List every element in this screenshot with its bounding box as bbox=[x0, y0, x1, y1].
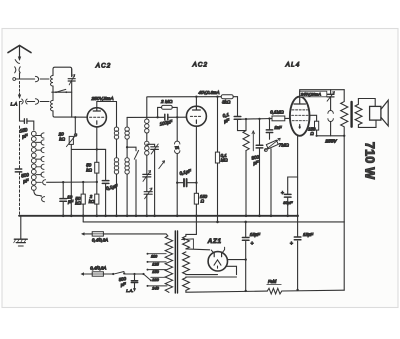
grid capacitor 100pF bbox=[165, 114, 168, 120]
tube V3 AL4 bbox=[290, 97, 310, 136]
AZ1 anodes bbox=[214, 253, 221, 257]
filter capacitor 15uF first bbox=[245, 222, 247, 237]
wire resistor to AVC node bbox=[96, 173, 98, 182]
resistor 2M grid leak bbox=[156, 116, 158, 118]
mid wire with switch bbox=[52, 91, 72, 93]
capacitor 0.1uF coupling bbox=[237, 97, 239, 116]
mains switch bbox=[112, 273, 114, 275]
AF grid line bbox=[241, 118, 272, 121]
wire pot bottom bbox=[71, 144, 105, 215]
svg-text:15µF: 15µF bbox=[303, 232, 313, 237]
speaker bbox=[370, 106, 381, 120]
svg-text:kΩ: kΩ bbox=[89, 199, 95, 204]
svg-text:+: + bbox=[290, 241, 293, 247]
secondary HT winding bbox=[183, 236, 190, 249]
capacitor 500pF mains bbox=[133, 273, 135, 275]
svg-text:0,4/0,8A: 0,4/0,8A bbox=[90, 265, 106, 270]
svg-text:110: 110 bbox=[151, 253, 158, 258]
capacitor 150pF bbox=[24, 119, 27, 124]
TA pickup jack bbox=[176, 117, 178, 141]
terminal A bbox=[13, 78, 16, 81]
screen resistor 150 bbox=[310, 115, 317, 136]
dashed gang line with 500pF bbox=[19, 126, 21, 168]
filter capacitor 15uF second bbox=[294, 237, 301, 240]
wire HT to AZ1 anode bbox=[186, 248, 210, 251]
tube V1 AC2 bbox=[87, 108, 106, 127]
wire antenna lead-in bbox=[19, 46, 21, 59]
wire V1 cathode bbox=[96, 127, 98, 162]
coil stack bottom hook bbox=[34, 190, 41, 196]
wire zigzag top riser bbox=[245, 119, 247, 131]
svg-text:1nF: 1nF bbox=[274, 125, 282, 130]
capacitor 0.1uF cathode bypass bbox=[97, 149, 106, 180]
resistor 150 ohm cathode bbox=[194, 193, 198, 204]
coupling fork L2 bbox=[35, 99, 38, 104]
trimmer side branch bbox=[147, 144, 155, 146]
svg-text:30µF: 30µF bbox=[283, 200, 293, 205]
AZ1 filament loop bbox=[227, 266, 237, 274]
svg-text:220: 220 bbox=[151, 277, 159, 282]
voltage selector blade bbox=[142, 273, 144, 275]
wire antenna branch down bbox=[19, 102, 21, 122]
rectifier AZ1 bbox=[208, 252, 227, 271]
bus junction dots bbox=[62, 215, 299, 218]
resistor 0.1M AL4 grid bbox=[272, 116, 285, 121]
secondary 6V winding bbox=[183, 278, 190, 293]
band coil stack bbox=[31, 131, 36, 190]
svg-text:710 W: 710 W bbox=[362, 142, 376, 179]
fuse F2 bbox=[92, 272, 103, 276]
tone jack pair bbox=[328, 111, 333, 114]
coil L2 winding bbox=[51, 92, 54, 111]
svg-text:+: + bbox=[281, 190, 284, 196]
potentiometer 7M bbox=[266, 140, 278, 149]
B+ screen line bbox=[147, 96, 238, 98]
svg-text:240: 240 bbox=[151, 285, 159, 290]
secondary 4V winding bbox=[183, 252, 190, 274]
svg-text:AC2: AC2 bbox=[95, 63, 112, 70]
svg-text:Feld: Feld bbox=[268, 279, 277, 284]
svg-text:kΩ: kΩ bbox=[75, 201, 81, 206]
speaker wires bbox=[358, 99, 376, 128]
RF input coil unit: top wire bbox=[53, 67, 72, 76]
antenna bbox=[8, 45, 31, 52]
output transformer core bbox=[350, 102, 352, 127]
pot wiper line bbox=[252, 131, 254, 151]
trimmer on rail lower bbox=[144, 192, 152, 195]
small trimmer arrow near osc bbox=[159, 161, 165, 169]
stack tap forks bbox=[36, 133, 46, 202]
wire zigzag to bus bbox=[245, 151, 247, 216]
wire to 150pF bbox=[20, 121, 34, 130]
IF tap with switch bbox=[126, 146, 128, 148]
svg-text:TA: TA bbox=[175, 145, 180, 150]
fuse F1 bbox=[92, 232, 103, 236]
coil L1 winding bbox=[51, 76, 54, 87]
primary taps bbox=[148, 254, 168, 286]
tuning capacitor C1 variable bbox=[68, 79, 75, 81]
svg-text:AC2: AC2 bbox=[192, 62, 209, 69]
wire LA line bbox=[20, 101, 50, 103]
svg-text:15µF: 15µF bbox=[250, 232, 260, 237]
wire AL4 plate to OT bbox=[300, 90, 345, 97]
cathode cap 0.1uF bbox=[177, 182, 196, 184]
wire pot top to grid line bbox=[74, 117, 76, 134]
svg-text:40V,0.6mA: 40V,0.6mA bbox=[199, 90, 220, 95]
boxed label 245V,26mA bbox=[300, 91, 327, 97]
HT tap arrow bbox=[182, 239, 194, 249]
switch blade S1 bbox=[56, 89, 66, 92]
wire V1 plate to IF1 bbox=[97, 102, 117, 108]
svg-text:150: 150 bbox=[152, 269, 159, 274]
output transformer primary bbox=[341, 90, 348, 136]
AZ1 cathode lead bbox=[228, 259, 246, 261]
wire L1 to mid bbox=[52, 86, 54, 92]
svg-text:0,4/0,8A: 0,4/0,8A bbox=[92, 238, 108, 243]
svg-text:245V,26mA: 245V,26mA bbox=[300, 92, 321, 97]
grid line to tube V2 bbox=[127, 116, 187, 118]
svg-text:125: 125 bbox=[152, 262, 159, 267]
B minus drop to bottom bbox=[343, 222, 345, 290]
svg-text:2 MΩ: 2 MΩ bbox=[160, 99, 173, 104]
resistor 2k bbox=[95, 194, 99, 204]
svg-text:+: + bbox=[251, 241, 254, 247]
resistor 50k second bbox=[81, 194, 85, 204]
antenna connector jack top bbox=[15, 60, 19, 64]
resistor 0.1M screen divider bbox=[217, 97, 219, 222]
wire tank right rail bbox=[71, 69, 73, 117]
svg-text:255V: 255V bbox=[324, 138, 337, 144]
arrow on dashed lead bbox=[18, 95, 21, 100]
255V line bbox=[331, 135, 345, 137]
bottom wire of tank bbox=[53, 111, 72, 117]
field coil Feld bbox=[267, 288, 282, 294]
wire AVC line y182 bbox=[47, 181, 97, 183]
oscillator coil rail bbox=[146, 97, 148, 119]
wire V2 plate bbox=[195, 97, 197, 107]
mains fuse line 1 bbox=[81, 232, 85, 235]
svg-text:kΩ: kΩ bbox=[59, 137, 65, 142]
svg-text:7MΩ: 7MΩ bbox=[279, 142, 290, 147]
capacitor 1nF bbox=[269, 119, 271, 130]
AZ1 filament bbox=[214, 260, 221, 268]
svg-text:AZ1: AZ1 bbox=[207, 238, 222, 245]
B+ bottom line bbox=[186, 291, 267, 292]
trimmer on rail bbox=[143, 174, 151, 177]
IF transformer rail 2 bbox=[126, 117, 128, 127]
antenna connector pair bbox=[15, 67, 21, 73]
AL4 cathode bypass branch bbox=[288, 177, 298, 194]
potentiometer 20k bbox=[69, 136, 73, 144]
power transformer primary bbox=[165, 236, 172, 293]
resistor 3k bbox=[221, 95, 233, 99]
svg-text:L.A.: L.A. bbox=[126, 288, 133, 293]
dashed antenna continuation bbox=[19, 82, 21, 97]
capacitor 300pF bbox=[259, 119, 261, 145]
antenna lead arrow bbox=[18, 57, 21, 62]
svg-text:MΩ: MΩ bbox=[221, 158, 229, 163]
svg-text:kΩ: kΩ bbox=[86, 167, 92, 172]
svg-text:AL4: AL4 bbox=[285, 62, 301, 69]
wire V2 cathode long bbox=[195, 126, 197, 234]
tone capacitor branch bbox=[330, 90, 332, 94]
IF transformer rail 1 bbox=[116, 102, 118, 128]
B minus line bbox=[83, 221, 344, 223]
svg-text:0,1MΩ: 0,1MΩ bbox=[270, 110, 284, 115]
resistor 50k cathode bbox=[95, 162, 99, 173]
capacitor 10uF bbox=[62, 182, 64, 198]
wire AL4 cathode long bbox=[297, 136, 299, 290]
tube V2 AC2 bbox=[186, 106, 206, 126]
mains fuse line 2 bbox=[81, 272, 85, 275]
wire A to coil L1 bbox=[16, 78, 49, 80]
coupling fork L1 bbox=[35, 76, 38, 81]
transformer core bbox=[175, 231, 177, 293]
svg-text:L.A: L.A bbox=[11, 101, 18, 106]
volume potentiometer zigzag bbox=[243, 131, 249, 151]
svg-text:3kΩ: 3kΩ bbox=[222, 99, 231, 104]
chassis ground bus bbox=[19, 215, 298, 217]
wire antenna to node bbox=[19, 73, 21, 79]
ground symbol bbox=[20, 216, 22, 239]
output transformer secondary bbox=[355, 99, 362, 128]
node LA connector pair bbox=[22, 99, 27, 104]
wire tank to grid of tube 1 bbox=[72, 116, 88, 118]
